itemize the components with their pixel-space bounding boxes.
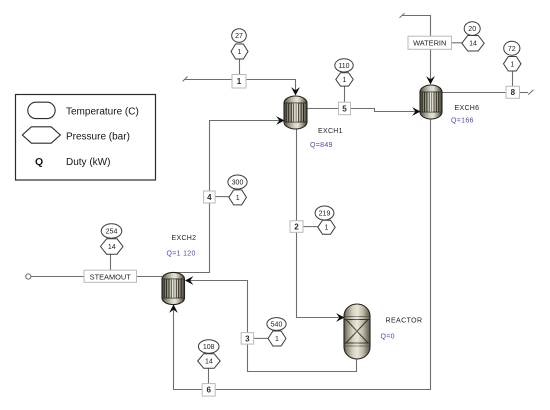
svg-text:Pressure (bar): Pressure (bar)	[66, 132, 130, 143]
steamout wire	[31, 276, 162, 278]
pressure indicator 14 (stream 6)	[198, 354, 221, 369]
stream 3 box-to-hex dash	[254, 337, 269, 339]
stream 8 export dash	[520, 92, 529, 94]
steamout terminal circle	[26, 274, 31, 279]
stream label 5	[339, 102, 351, 115]
stream 4 box-to-hex dash	[215, 196, 229, 198]
svg-text:Q=1 120: Q=1 120	[167, 250, 196, 257]
svg-text:14: 14	[205, 359, 213, 366]
svg-text:EXCH6: EXCH6	[455, 105, 480, 112]
svg-text:WATERIN: WATERIN	[413, 39, 446, 48]
svg-text:219: 219	[319, 211, 331, 218]
svg-text:20: 20	[468, 26, 476, 33]
svg-text:STEAMOUT: STEAMOUT	[90, 272, 132, 281]
arrow into REACTOR left	[336, 313, 344, 322]
temperature indicator 540	[267, 318, 286, 331]
svg-text:14: 14	[108, 244, 116, 251]
svg-text:254: 254	[106, 229, 118, 236]
svg-text:2: 2	[294, 223, 299, 232]
pressure indicator 1 (stream 3)	[268, 331, 286, 346]
svg-text:5: 5	[342, 104, 347, 113]
steamout indicator connector	[110, 254, 112, 271]
temperature indicator 110	[335, 59, 353, 72]
stream label 2	[290, 221, 303, 233]
svg-text:108: 108	[203, 344, 215, 351]
waterin wire	[402, 16, 431, 84]
stream 8 export tick	[528, 90, 534, 95]
stream name box WATERIN	[408, 36, 452, 49]
temperature indicator 300	[228, 175, 247, 189]
temperature indicator 254	[101, 224, 122, 238]
stream label 4	[204, 191, 216, 203]
svg-text:1: 1	[275, 336, 279, 343]
stream 1 wire	[185, 80, 296, 95]
legend pressure hexagon	[22, 127, 60, 143]
svg-text:27: 27	[235, 33, 243, 40]
stream 2 wire	[297, 129, 344, 318]
pressure indicator 14 (steamout)	[101, 239, 124, 254]
pressure indicator 14 (waterin)	[462, 36, 484, 52]
arrow into EXCH2 right	[185, 276, 193, 285]
stream label 1	[232, 75, 246, 89]
svg-text:REACTOR: REACTOR	[386, 317, 423, 324]
temperature indicator 72	[504, 41, 520, 55]
stream 5 indicator connector	[344, 86, 346, 103]
svg-text:Temperature (C): Temperature (C)	[66, 107, 139, 118]
svg-text:110: 110	[338, 63, 349, 70]
stream 1 indicator connector	[239, 59, 241, 75]
stream 6 / recycle wire	[174, 119, 431, 390]
legend box	[16, 95, 156, 181]
arrow into EXCH2 bottom	[169, 305, 178, 313]
svg-text:Q: Q	[35, 156, 43, 168]
svg-text:14: 14	[469, 41, 477, 48]
temperature indicator 20	[464, 22, 480, 36]
arrow into EXCH1 top	[291, 87, 300, 95]
svg-text:EXCH1: EXCH1	[318, 128, 343, 135]
svg-text:EXCH2: EXCH2	[172, 235, 197, 242]
stream 8 wire	[442, 92, 506, 94]
stream label 8	[506, 86, 520, 98]
pressure indicator 1 (stream 8)	[504, 57, 522, 72]
svg-text:Q=849: Q=849	[310, 142, 333, 149]
svg-text:Duty (kW): Duty (kW)	[66, 157, 110, 168]
legend temperature oval	[28, 102, 55, 118]
pressure indicator 1 (stream 2)	[318, 220, 335, 234]
pressure indicator 1 (stream 4)	[229, 190, 247, 205]
stream 6 indicator connector	[208, 368, 210, 384]
svg-text:Q=166: Q=166	[451, 117, 474, 124]
stream 5 wire	[307, 109, 418, 112]
stream label 6	[202, 384, 215, 397]
svg-text:Q=0: Q=0	[381, 333, 395, 340]
temperature indicator 108	[198, 340, 219, 354]
stream 3 wire	[187, 281, 357, 372]
arrow into EXCH1 left	[276, 116, 284, 125]
svg-text:1: 1	[237, 77, 242, 86]
pressure indicator 1 (stream 5)	[336, 73, 353, 86]
svg-text:4: 4	[207, 193, 212, 202]
svg-text:1: 1	[510, 61, 514, 68]
svg-text:1: 1	[325, 225, 329, 232]
arrow into EXCH6 top	[426, 76, 435, 84]
svg-text:3: 3	[245, 334, 250, 343]
waterin box-to-hex dash	[452, 42, 462, 44]
temperature indicator 27	[232, 29, 247, 43]
svg-text:300: 300	[232, 180, 244, 187]
svg-text:1: 1	[236, 195, 240, 202]
stream label 3	[241, 333, 254, 345]
stream 4 wire	[174, 121, 284, 275]
temperature indicator 219	[315, 206, 334, 220]
stream name box STEAMOUT	[84, 270, 137, 282]
svg-text:540: 540	[271, 322, 283, 329]
pressure indicator 1 (stream 1)	[231, 44, 248, 59]
stream 1 import tick	[183, 77, 188, 82]
svg-text:72: 72	[508, 46, 516, 53]
svg-text:6: 6	[206, 386, 211, 395]
waterin import tick	[400, 13, 405, 18]
svg-text:1: 1	[238, 49, 242, 56]
svg-text:8: 8	[511, 88, 516, 97]
stream 8 indicator connector	[512, 71, 514, 87]
arrow into EXCH6 left	[412, 107, 420, 116]
svg-text:1: 1	[343, 77, 347, 84]
stream 2 box-to-hex dash	[303, 226, 318, 228]
